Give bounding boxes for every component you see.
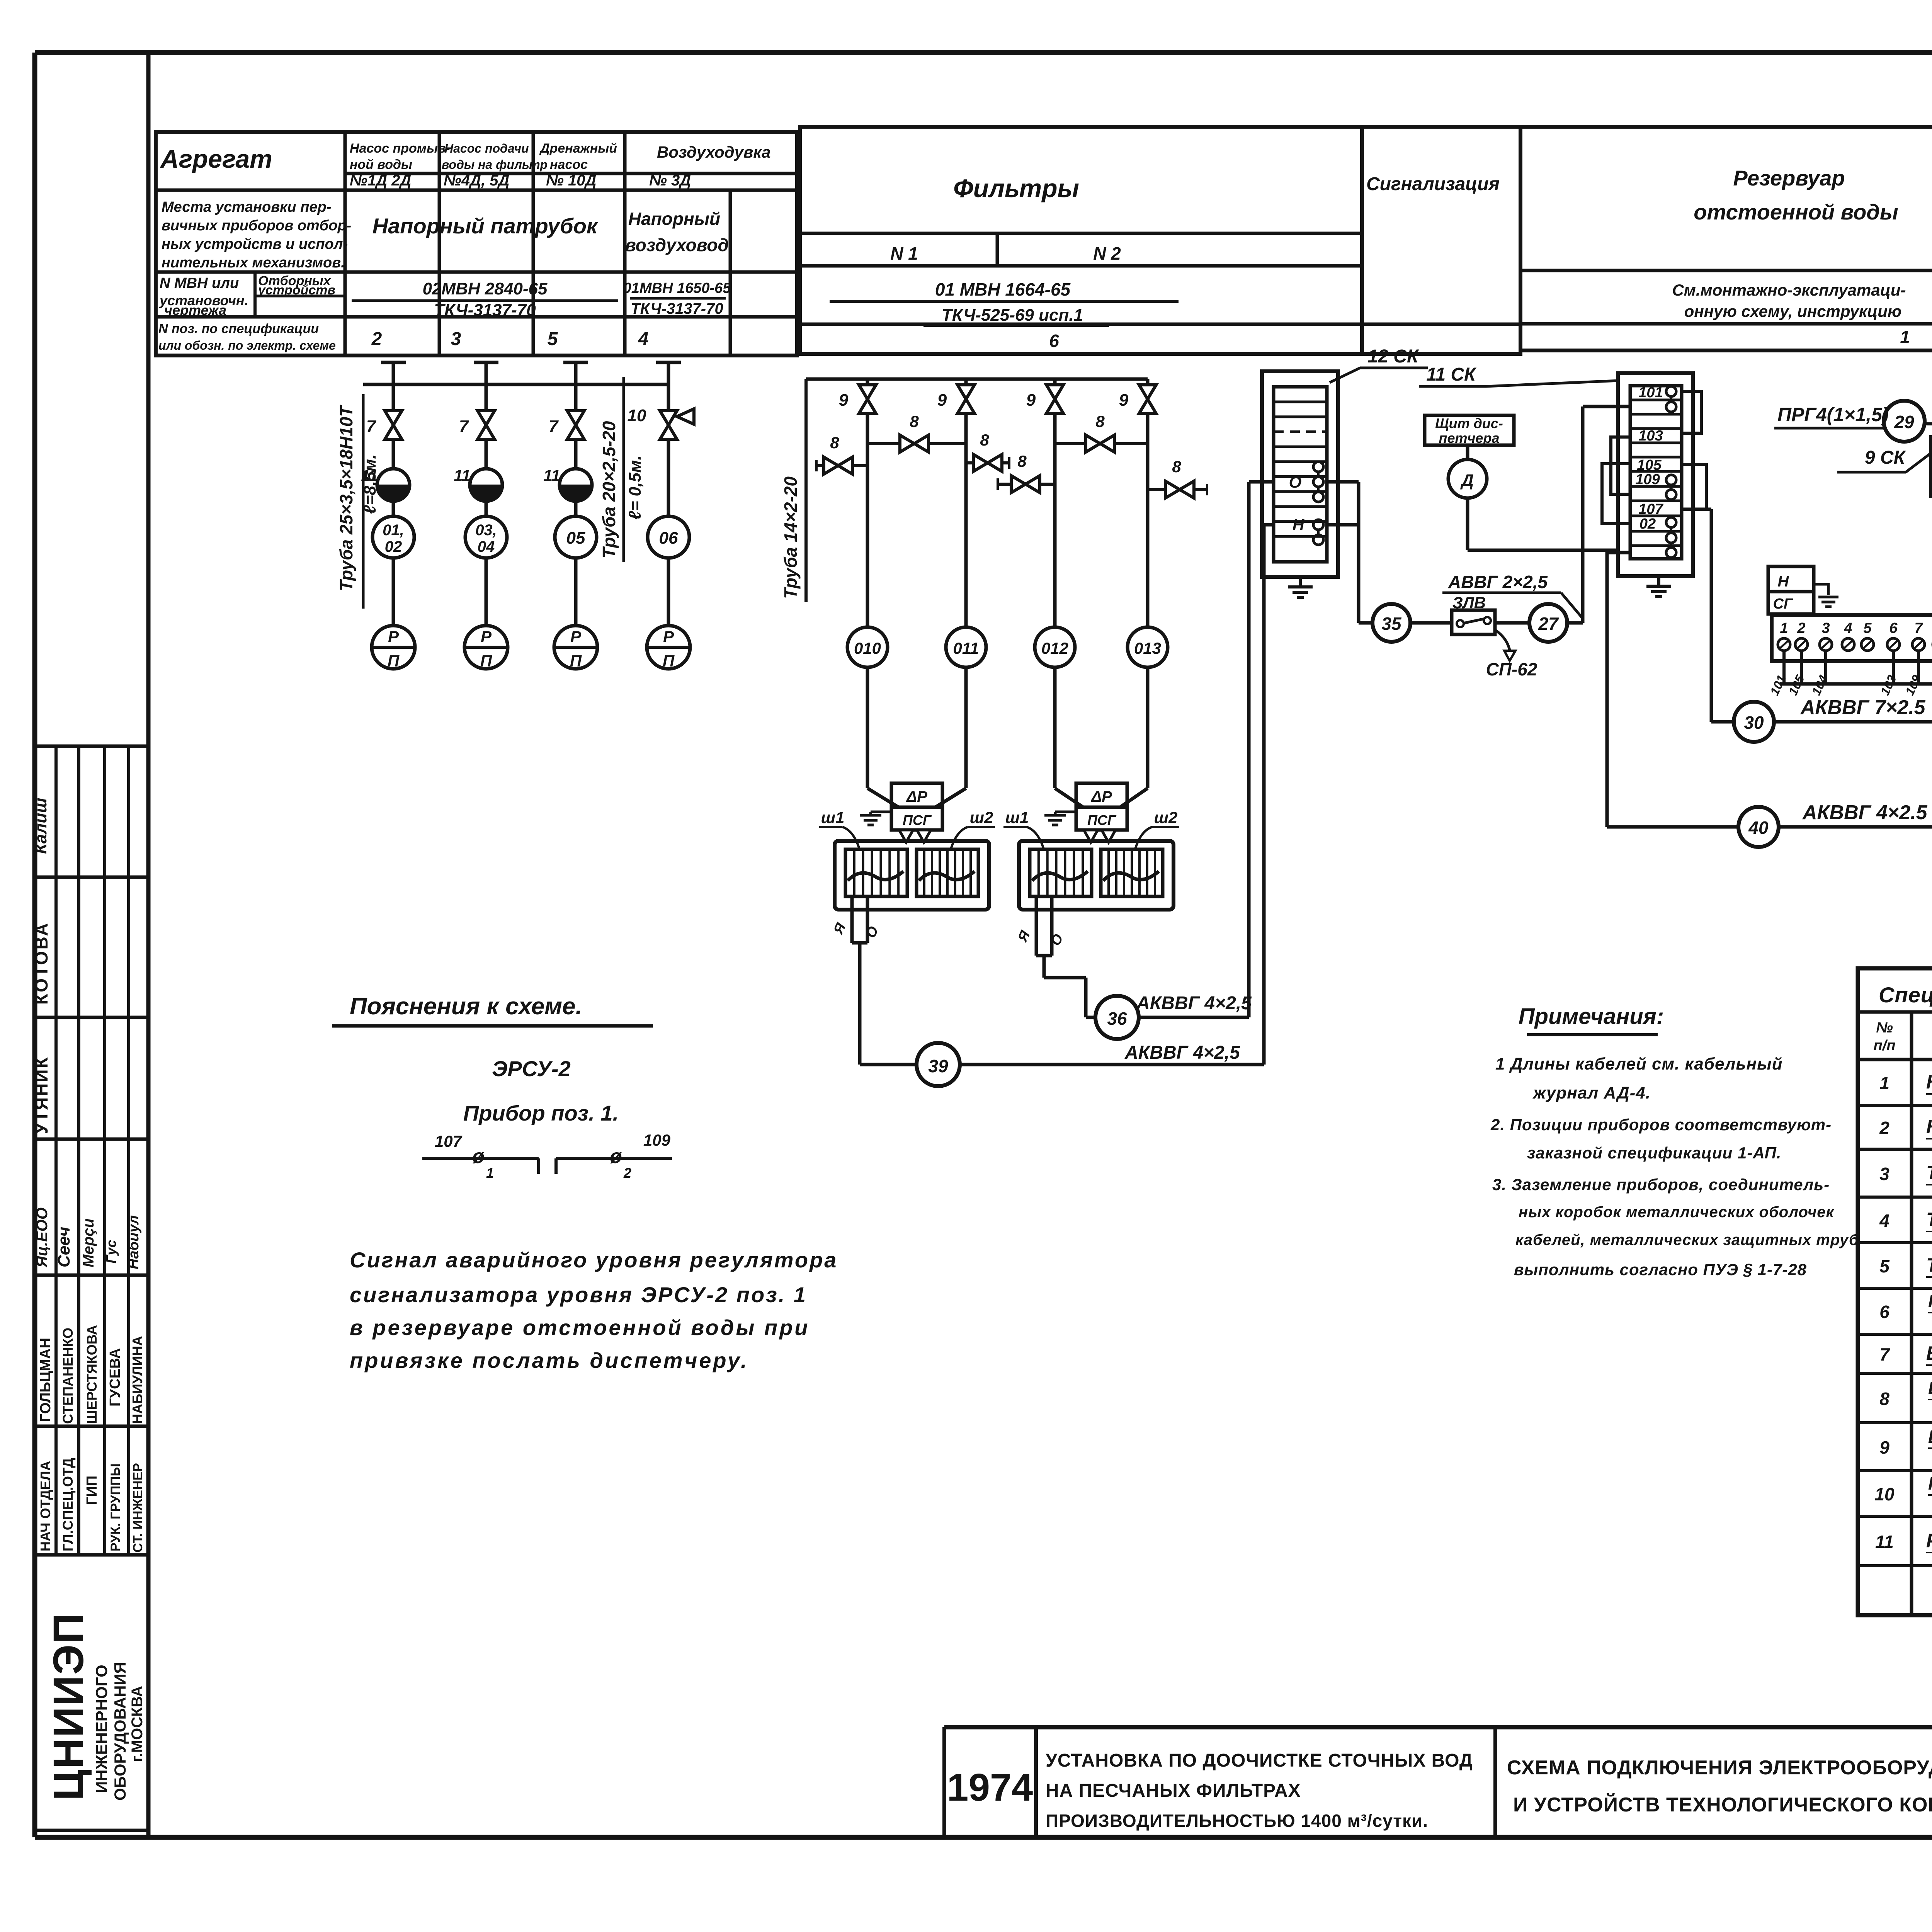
underline isp1 bbox=[923, 325, 1109, 327]
svg-text:105: 105 bbox=[1637, 457, 1662, 473]
wire D to 11SK bbox=[1468, 549, 1618, 552]
header table Agregat bbox=[156, 132, 797, 355]
spec row line bbox=[1858, 1515, 1932, 1518]
svg-text:5: 5 bbox=[1863, 620, 1872, 636]
svg-text:журнал АД-4.: журнал АД-4. bbox=[1532, 1083, 1651, 1102]
spec row line bbox=[1858, 1196, 1932, 1199]
sidebar divider line bbox=[35, 1016, 148, 1019]
pipe label truba 14 underline bbox=[804, 379, 808, 602]
svg-text:ш2: ш2 bbox=[1154, 808, 1178, 827]
svg-text:2: 2 bbox=[371, 329, 382, 349]
svg-text:ПСГ: ПСГ bbox=[1087, 812, 1117, 828]
wire down to 39 bbox=[858, 943, 862, 1065]
title block divider bbox=[1493, 1727, 1497, 1837]
filter assembly N1 tube slant right bbox=[935, 788, 966, 807]
svg-text:АКВВГ 7×2.5: АКВВГ 7×2.5 bbox=[1800, 696, 1926, 719]
label 11SK underline bbox=[1419, 385, 1486, 388]
riser to 12SK (O row) bbox=[1247, 482, 1251, 1017]
svg-text:Коробка соединительная: Коробка соединительная bbox=[1926, 1071, 1932, 1093]
svg-text:Примечания:: Примечания: bbox=[1519, 1004, 1664, 1029]
svg-text:ℓ=8,5м.: ℓ=8,5м. bbox=[361, 454, 379, 514]
12SK terminal bbox=[1313, 520, 1323, 530]
svg-text:Гус: Гус bbox=[103, 1240, 119, 1264]
svg-text:Коробка соединительная: Коробка соединительная bbox=[1926, 1116, 1932, 1138]
table sub col bbox=[253, 272, 257, 317]
terminal strip box bbox=[1772, 615, 1932, 661]
12SK row line bbox=[1274, 475, 1327, 478]
svg-text:нительных механизмов.: нительных механизмов. bbox=[162, 255, 345, 271]
label 9SK leader bbox=[1906, 453, 1931, 472]
tube continues below circle bbox=[866, 667, 869, 788]
svg-text:ШЕРСТЯКОВА: ШЕРСТЯКОВА bbox=[84, 1325, 100, 1424]
11SK terminal bbox=[1666, 386, 1676, 396]
svg-text:Насос промыв-: Насос промыв- bbox=[350, 141, 450, 156]
stub end tick bbox=[815, 460, 818, 471]
title block divider bbox=[942, 1727, 946, 1837]
frame left border bbox=[32, 53, 37, 1837]
12SK O-row wire left bbox=[1249, 480, 1274, 484]
svg-text:Труба 25×3,5×18Н10Т: Труба 25×3,5×18Н10Т bbox=[336, 405, 356, 591]
table row line bbox=[156, 189, 345, 192]
svg-text:013: 013 bbox=[1134, 639, 1161, 657]
svg-text:№1Д 2Д: №1Д 2Д bbox=[350, 172, 411, 189]
svg-text:№: № bbox=[1876, 1020, 1893, 1036]
11SK ground bbox=[1646, 576, 1671, 597]
svg-text:Вентиль запорный игольчатый: Вентиль запорный игольчатый bbox=[1928, 1378, 1932, 1398]
sidebar column line bbox=[54, 746, 58, 1555]
switch box ZLV / SP-62 bbox=[1452, 610, 1495, 634]
cable circle 29 bbox=[1884, 401, 1925, 442]
three-way valve 10 bbox=[660, 411, 677, 439]
box N bbox=[1768, 566, 1814, 592]
wire 27 right bbox=[1567, 621, 1583, 625]
svg-text:АКВВГ 4×2,5: АКВВГ 4×2,5 bbox=[1124, 1043, 1240, 1063]
svg-text:107: 107 bbox=[1638, 501, 1663, 517]
wire A from assembly1 bbox=[850, 896, 854, 943]
filter assembly N2 bbox=[1019, 841, 1173, 910]
svg-text:Напорный патрубок: Напорный патрубок bbox=[372, 214, 599, 238]
wire D down bbox=[1466, 498, 1469, 550]
svg-text:петчера: петчера bbox=[1439, 430, 1499, 446]
12SK N-row wire left bbox=[1264, 523, 1274, 527]
header table Signalizacia bbox=[1362, 127, 1520, 354]
wire 39 to riser bbox=[960, 1063, 1264, 1066]
svg-text:Дренажный: Дренажный bbox=[539, 141, 617, 156]
wire step right bbox=[1044, 976, 1086, 980]
filter assembly N2 hatched strip 1 bbox=[1030, 849, 1092, 896]
svg-text:СТ. ИНЖЕНЕР: СТ. ИНЖЕНЕР bbox=[131, 1463, 145, 1553]
fraction line bbox=[352, 299, 618, 302]
wire 29 to shielded bundle bbox=[1923, 422, 1932, 425]
svg-text:ЦНИИЭП: ЦНИИЭП bbox=[45, 1612, 92, 1801]
11SK left jumper 105-02 bbox=[1602, 464, 1630, 524]
valve 8 stub tube2 bbox=[973, 454, 1002, 471]
svg-text:Р: Р bbox=[570, 628, 582, 646]
svg-text:Сигнализация: Сигнализация bbox=[1366, 174, 1500, 194]
svg-text:ш1: ш1 bbox=[821, 808, 845, 827]
switch contact bbox=[1484, 617, 1491, 624]
svg-text:Труба 14×2-20: Труба 14×2-20 bbox=[781, 476, 801, 599]
stub tube3 left bbox=[998, 483, 1055, 486]
svg-text:Резервуар: Резервуар bbox=[1733, 166, 1845, 190]
svg-text:ТКЧ-525-69 исп.1: ТКЧ-525-69 исп.1 bbox=[942, 306, 1083, 325]
filter assembly N2 tube slant left bbox=[1055, 788, 1083, 807]
table row line bbox=[345, 189, 797, 192]
spec title underline row bbox=[1858, 1010, 1932, 1014]
stub end tick bbox=[1206, 484, 1208, 495]
svg-text:заказной спецификации 1-АП.: заказной спецификации 1-АП. bbox=[1527, 1144, 1781, 1162]
filters manifold bbox=[806, 378, 1148, 381]
12SK ground bbox=[1288, 577, 1313, 597]
svg-text:И УСТРОЙСТВ ТЕХНОЛОГИЧЕСКОГО: И УСТРОЙСТВ ТЕХНОЛОГИЧЕСКОГО КОНТРОЛЯ. bbox=[1513, 1793, 1932, 1816]
valve 7 on tube x1490 bbox=[567, 411, 584, 439]
11SK row line bbox=[1630, 530, 1682, 533]
svg-text:1: 1 bbox=[1780, 620, 1788, 636]
12SK O-row wire right bbox=[1327, 480, 1359, 484]
svg-text:Д: Д bbox=[1460, 471, 1474, 490]
12SK row line bbox=[1274, 446, 1327, 448]
table row line bbox=[156, 270, 797, 274]
sidebar divider bbox=[146, 53, 151, 1837]
svg-text:7: 7 bbox=[549, 417, 559, 436]
filter assembly N1 DR box bbox=[891, 783, 942, 807]
strip terminal 7 bbox=[1912, 638, 1925, 651]
12SK row line bbox=[1274, 415, 1327, 418]
svg-text:06: 06 bbox=[659, 529, 678, 548]
table row line bbox=[156, 315, 797, 319]
spec row line bbox=[1858, 1372, 1932, 1375]
11SK wire row02 bbox=[1607, 553, 1630, 827]
11SK left jumper 103-109 bbox=[1611, 437, 1630, 494]
12SK terminal bbox=[1313, 477, 1323, 487]
title block divider bbox=[1034, 1727, 1038, 1837]
stub tube4 right bbox=[1148, 488, 1207, 491]
svg-text:Р: Р bbox=[663, 628, 674, 646]
svg-text:Воздуходувка: Воздуходувка bbox=[657, 143, 771, 161]
svg-text:Сигнал аварийного уровня: Сигнал аварийного уровня регулятора bbox=[350, 1248, 838, 1272]
svg-text:7: 7 bbox=[459, 417, 469, 436]
wire panel to D bbox=[1466, 445, 1469, 459]
sidebar column line bbox=[77, 746, 80, 1555]
header table Rezervuar bbox=[1520, 127, 1932, 350]
sidebar divider line bbox=[35, 1425, 148, 1428]
label 11SK leader bbox=[1486, 381, 1619, 386]
svg-text:02: 02 bbox=[1639, 516, 1656, 532]
spec header bottom bbox=[1858, 1058, 1932, 1061]
stub end tick bbox=[1008, 457, 1010, 469]
filter tube 4 bbox=[1146, 379, 1150, 385]
wire A from assembly2 bbox=[1035, 896, 1038, 956]
svg-text:ш2: ш2 bbox=[970, 808, 993, 827]
wire 27 riser to 11SK bbox=[1581, 406, 1585, 623]
12SK N-row wire right bbox=[1327, 523, 1359, 527]
membrane separator 11 on tube x1258 bbox=[470, 469, 502, 501]
svg-text:01 МВН 1664-65: 01 МВН 1664-65 bbox=[935, 279, 1071, 299]
svg-text:ПРОИЗВОДИТЕЛЬНОСТЬЮ 1400 м³/с: ПРОИЗВОДИТЕЛЬНОСТЬЮ 1400 м³/сутки. bbox=[1046, 1811, 1428, 1831]
row line under N bbox=[800, 264, 1362, 268]
svg-text:Калиш: Калиш bbox=[31, 798, 50, 854]
svg-text:СХЕМА ПОДКЛЮЧЕНИЯ ЭЛЕКТРООБОРУ: СХЕМА ПОДКЛЮЧЕНИЯ ЭЛЕКТРООБОРУДОВАНИЯ ПР… bbox=[1507, 1757, 1932, 1779]
tube 2 left group bbox=[474, 361, 498, 364]
svg-text:воды на фильтр: воды на фильтр bbox=[442, 158, 548, 172]
svg-text:2: 2 bbox=[1879, 1118, 1889, 1138]
svg-text:10: 10 bbox=[628, 406, 646, 425]
name underline bbox=[1928, 1447, 1932, 1449]
svg-text:8: 8 bbox=[830, 434, 839, 452]
svg-text:05: 05 bbox=[566, 529, 585, 548]
svg-text:1974: 1974 bbox=[947, 1766, 1033, 1809]
svg-text:Вентиль запорный сильфонный: Вентиль запорный сильфонный bbox=[1928, 1427, 1932, 1447]
valve 8 stub tube3 bbox=[1011, 476, 1040, 493]
valve 8 bridge 3-4 bbox=[1086, 435, 1114, 452]
svg-text:12 СК: 12 СК bbox=[1368, 346, 1420, 367]
svg-text:Разделитель мембранный: Разделитель мембранный bbox=[1926, 1530, 1932, 1551]
svg-text:1: 1 bbox=[1879, 1073, 1889, 1093]
11SK right wire row101 bbox=[1682, 391, 1701, 433]
11SK terminal bbox=[1666, 548, 1676, 558]
svg-text:выполнить согласно ПУЭ § 1-7-2: выполнить согласно ПУЭ § 1-7-28 bbox=[1514, 1260, 1807, 1279]
svg-text:107: 107 bbox=[435, 1132, 463, 1150]
svg-text:1 Длины кабелей см. кабельный: 1 Длины кабелей см. кабельный bbox=[1495, 1054, 1783, 1073]
riser down to circle 30 bbox=[1710, 509, 1713, 722]
junction box 11SK bbox=[1618, 373, 1693, 576]
svg-text:ных коробок металлических обол: ных коробок металлических оболочек bbox=[1519, 1204, 1835, 1221]
svg-text:СГ: СГ bbox=[1773, 596, 1793, 612]
svg-text:109: 109 bbox=[1635, 471, 1660, 488]
table col line bbox=[532, 132, 535, 355]
valve 9 on filter tube 2 bbox=[957, 385, 975, 413]
svg-text:СТЕПАНЕНКО: СТЕПАНЕНКО bbox=[60, 1328, 76, 1424]
svg-text:Места установки пер-: Места установки пер- bbox=[162, 199, 331, 215]
svg-text:УТЯНИК: УТЯНИК bbox=[31, 1056, 51, 1134]
svg-text:8: 8 bbox=[1172, 457, 1181, 476]
name underline bbox=[1926, 1364, 1932, 1366]
svg-text:привязке послать диспетчеру: привязке послать диспетчеру. bbox=[350, 1348, 749, 1372]
svg-text:02: 02 bbox=[385, 538, 402, 555]
sidebar divider line bbox=[35, 1274, 148, 1277]
svg-text:№4Д, 5Д: №4Д, 5Д bbox=[444, 172, 509, 189]
svg-text:9: 9 bbox=[839, 391, 849, 410]
title block bbox=[944, 1725, 1932, 1730]
tube 3 left group bbox=[563, 361, 588, 364]
instrument circle R/P on tube x1490 bbox=[574, 558, 578, 626]
svg-text:П: П bbox=[388, 652, 400, 670]
tube 1 left group bbox=[381, 361, 406, 364]
instrument circle 013 bbox=[1128, 627, 1168, 667]
frame top border bbox=[35, 50, 1932, 55]
wire join bbox=[1036, 954, 1052, 957]
svg-text:2: 2 bbox=[1797, 620, 1805, 636]
svg-text:ных устройств и испол-: ных устройств и испол- bbox=[162, 236, 348, 252]
svg-text:АКВВГ 4×2,5: АКВВГ 4×2,5 bbox=[1136, 993, 1252, 1014]
12SK terminal bbox=[1313, 535, 1323, 545]
label 12SK underline bbox=[1360, 367, 1428, 369]
filter assembly N1 ground stub bbox=[871, 811, 891, 813]
wire to circle 40 bbox=[1607, 825, 1738, 829]
row line bbox=[1362, 323, 1520, 326]
11SK terminal bbox=[1666, 490, 1676, 500]
switch lever bbox=[1463, 619, 1485, 623]
svg-text:ТКЧ-3137-70: ТКЧ-3137-70 bbox=[631, 300, 723, 317]
svg-text:кабелей, металлических защитны: кабелей, металлических защитных труб bbox=[1515, 1231, 1859, 1248]
11SK row line bbox=[1630, 427, 1682, 430]
spec row line bbox=[1858, 1104, 1932, 1107]
svg-text:11: 11 bbox=[1875, 1532, 1894, 1552]
sidebar column line bbox=[103, 746, 106, 1555]
valve 8 stub tube4 bbox=[1165, 481, 1194, 498]
11SK row line bbox=[1630, 456, 1682, 459]
label leader bbox=[1561, 593, 1582, 617]
svg-text:36: 36 bbox=[1107, 1009, 1127, 1029]
strip stub to bus bbox=[1800, 651, 1803, 684]
instrument circle R/P on tube x1018 bbox=[392, 558, 395, 626]
filter tube 3 bbox=[1053, 379, 1057, 385]
12SK row line dashed bbox=[1274, 430, 1327, 433]
svg-text:4: 4 bbox=[638, 329, 649, 349]
svg-text:ной воды: ной воды bbox=[350, 157, 412, 172]
svg-text:Р: Р bbox=[481, 628, 492, 646]
stub tube1 left bbox=[816, 464, 867, 467]
row line under Filtry bbox=[800, 232, 1362, 235]
11SK row line bbox=[1630, 413, 1682, 416]
svg-text:8: 8 bbox=[910, 412, 919, 430]
svg-text:Агрегат: Агрегат bbox=[160, 145, 272, 173]
svg-text:5: 5 bbox=[1879, 1256, 1890, 1276]
svg-text:ø: ø bbox=[472, 1145, 485, 1168]
row line bbox=[1520, 322, 1932, 326]
svg-text:N поз. по спецификации: N поз. по спецификации bbox=[158, 321, 319, 336]
svg-text:2: 2 bbox=[623, 1165, 631, 1181]
filter assembly N2 tube slant right bbox=[1120, 788, 1148, 807]
svg-text:7: 7 bbox=[1879, 1344, 1890, 1364]
wire step down bbox=[1043, 956, 1046, 978]
bridge tube3-tube4 bbox=[1055, 442, 1148, 445]
svg-text:011: 011 bbox=[953, 639, 979, 657]
svg-text:Провод медный с резиновой: Провод медный с резиновой bbox=[1928, 1291, 1932, 1311]
spec row line bbox=[1858, 1241, 1932, 1244]
svg-text:7: 7 bbox=[366, 417, 377, 436]
11SK row line bbox=[1630, 470, 1682, 473]
valve 9 on filter tube 4 bbox=[1139, 385, 1156, 413]
svg-text:8: 8 bbox=[1017, 452, 1027, 470]
frame bottom border bbox=[35, 1835, 1932, 1840]
svg-text:ΔР: ΔР bbox=[1090, 788, 1112, 805]
title underline bbox=[332, 1024, 653, 1028]
11SK row line bbox=[1630, 544, 1682, 547]
svg-text:35: 35 bbox=[1381, 614, 1402, 634]
svg-text:онную схему, инструкцию: онную схему, инструкцию bbox=[1684, 302, 1901, 320]
12SK row line bbox=[1274, 490, 1327, 493]
tube continues below circle bbox=[964, 667, 968, 788]
svg-text:ΔР: ΔР bbox=[906, 788, 927, 805]
svg-text:02МВН 2840-65: 02МВН 2840-65 bbox=[423, 279, 548, 298]
11SK terminal bbox=[1666, 517, 1676, 527]
svg-text:РУК. ГРУППЫ: РУК. ГРУППЫ bbox=[108, 1463, 123, 1551]
junction box 12SK bbox=[1262, 371, 1338, 577]
svg-text:3. Заземление приборов, соедин: 3. Заземление приборов, соединитель- bbox=[1492, 1175, 1830, 1194]
svg-text:ГУСЕВА: ГУСЕВА bbox=[107, 1348, 123, 1406]
strip terminal 4 bbox=[1842, 638, 1854, 651]
row line under MVN bbox=[800, 323, 1362, 326]
svg-text:ℓ= 0,5м.: ℓ= 0,5м. bbox=[626, 455, 645, 520]
valve 8 stub tube1 bbox=[824, 457, 852, 474]
svg-text:П: П bbox=[480, 652, 492, 670]
tube continues below circle bbox=[1053, 667, 1057, 788]
cable circle 36 bbox=[1095, 996, 1139, 1039]
cable circle 39 bbox=[917, 1043, 960, 1086]
SG ground bbox=[1814, 584, 1838, 607]
svg-text:№ 3Д: № 3Д bbox=[649, 172, 691, 189]
name underline bbox=[1926, 1093, 1932, 1095]
stub end tick bbox=[997, 478, 999, 490]
svg-text:27: 27 bbox=[1538, 614, 1559, 634]
pipe label underline bbox=[362, 394, 365, 609]
valve 7 on tube x1258 bbox=[478, 411, 495, 439]
svg-text:АКВВГ 4×2.5: АКВВГ 4×2.5 bbox=[1802, 801, 1928, 824]
cable circle 40 bbox=[1738, 807, 1779, 847]
svg-text:ИНЖЕНЕРНОГО: ИНЖЕНЕРНОГО bbox=[92, 1665, 111, 1793]
svg-text:9: 9 bbox=[1119, 391, 1129, 410]
spec row line bbox=[1858, 1148, 1932, 1151]
12SK row line bbox=[1274, 401, 1327, 403]
11SK row line bbox=[1630, 485, 1682, 488]
instrument circle R/P on tube x1730 bbox=[667, 558, 670, 626]
strip terminal 5 bbox=[1861, 638, 1874, 651]
instrument circle 05 bbox=[555, 516, 597, 558]
bridge tube1-tube2 bbox=[867, 442, 966, 445]
wire switch to 27 bbox=[1495, 621, 1529, 625]
svg-text:Н: Н bbox=[1293, 515, 1305, 534]
name underline bbox=[1926, 1184, 1932, 1185]
spec col line bbox=[1910, 1012, 1913, 1615]
svg-text:39: 39 bbox=[928, 1056, 948, 1076]
filter assembly N1 hatched strip 1 bbox=[845, 849, 907, 896]
svg-text:04: 04 bbox=[478, 538, 495, 555]
svg-text:N 1: N 1 bbox=[890, 243, 918, 264]
filter assembly N2 ground stub bbox=[1055, 811, 1076, 813]
svg-text:ш1: ш1 bbox=[1005, 808, 1029, 827]
svg-text:НАБИУЛИНА: НАБИУЛИНА bbox=[129, 1336, 145, 1424]
strip stub to bus bbox=[1892, 651, 1895, 684]
11SK terminal bbox=[1666, 402, 1676, 412]
table row line bbox=[625, 172, 797, 175]
svg-text:УСТАНОВКА ПО ДООЧИСТКЕ СТОЧНЫХ: УСТАНОВКА ПО ДООЧИСТКЕ СТОЧНЫХ ВОД bbox=[1046, 1750, 1473, 1771]
11SK row line bbox=[1630, 515, 1682, 517]
svg-text:3: 3 bbox=[1879, 1164, 1889, 1184]
svg-text:Вентиль запорный муфтовый: Вентиль запорный муфтовый bbox=[1926, 1342, 1932, 1364]
svg-text:8: 8 bbox=[1095, 412, 1105, 430]
filter assembly N2 twin triangles bbox=[1084, 830, 1116, 842]
svg-text:чертежа: чертежа bbox=[164, 302, 226, 318]
svg-text:8: 8 bbox=[980, 431, 989, 449]
svg-text:N 2: N 2 bbox=[1093, 243, 1121, 264]
11SK terminal bbox=[1666, 475, 1676, 485]
name underline bbox=[1926, 1138, 1932, 1139]
fraction line bbox=[630, 297, 726, 300]
svg-text:Щит дис-: Щит дис- bbox=[1435, 415, 1503, 431]
sidebar column line bbox=[127, 746, 130, 1555]
svg-text:устройств: устройств bbox=[257, 283, 335, 298]
svg-text:ГИП: ГИП bbox=[84, 1476, 100, 1505]
svg-text:109: 109 bbox=[643, 1131, 671, 1149]
strip terminal 2 bbox=[1795, 638, 1808, 651]
svg-text:ø: ø bbox=[610, 1145, 622, 1168]
filter assembly N1 twin triangles bbox=[899, 830, 931, 842]
box SG bbox=[1768, 592, 1814, 614]
N1/N2 divider bbox=[996, 233, 999, 266]
svg-text:Фильтры: Фильтры bbox=[953, 174, 1079, 202]
dispatcher panel box bbox=[1425, 415, 1514, 445]
